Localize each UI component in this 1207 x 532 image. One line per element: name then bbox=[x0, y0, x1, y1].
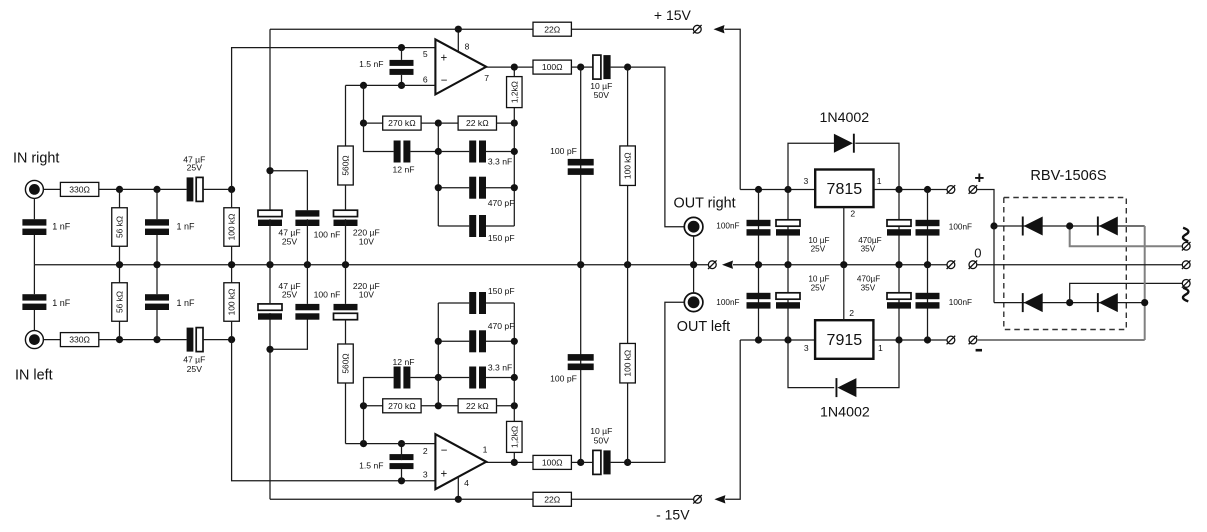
svg-text:25V: 25V bbox=[811, 283, 826, 292]
arrow 0V bbox=[722, 261, 733, 269]
resistor 100 ohm (bottom) bbox=[533, 455, 571, 469]
svg-text:100 kΩ: 100 kΩ bbox=[623, 152, 633, 179]
svg-text:150 pF: 150 pF bbox=[488, 233, 515, 243]
capacitor 1.5 nF (bottom) bbox=[390, 454, 414, 469]
wire -unreg rail right bbox=[874, 339, 947, 341]
svg-text:12 nF: 12 nF bbox=[393, 357, 415, 367]
wire R56k to 0V (bottom) bbox=[119, 265, 121, 283]
wire to 10uF (bottom) bbox=[581, 461, 593, 463]
svg-text:56 kΩ: 56 kΩ bbox=[115, 216, 125, 238]
svg-text:0: 0 bbox=[974, 246, 981, 261]
terminal AC2 bbox=[1182, 279, 1191, 288]
wire 1nF first to 0V (top) bbox=[33, 235, 35, 265]
wire -15V left vertical bbox=[269, 313, 271, 499]
junction feedback vertical top bbox=[360, 82, 367, 89]
op-amp U1b (bottom) bbox=[435, 434, 486, 489]
wire R330 to node (bottom) bbox=[99, 339, 120, 341]
svg-text:7815: 7815 bbox=[827, 181, 863, 198]
svg-text:5: 5 bbox=[423, 49, 428, 59]
wire 100k node down to op-amp pin3 bbox=[232, 340, 436, 481]
wire 7915 pin2 to 0V bbox=[843, 265, 845, 321]
wire feedback vertical bbox=[363, 85, 365, 123]
capacitor 150 pF (top) bbox=[469, 215, 486, 237]
svg-text:10V: 10V bbox=[359, 290, 375, 300]
diode D3 bridge top-left bbox=[1022, 217, 1043, 236]
svg-text:560Ω: 560Ω bbox=[341, 353, 351, 373]
wire OUT left jack to 0V bbox=[693, 265, 695, 293]
wire 10uF out col (PSU top) bbox=[787, 190, 789, 265]
resistor 100 kohm input (top) bbox=[224, 208, 240, 247]
capacitor 10uF 25V PSU out (top) bbox=[776, 220, 800, 236]
junction pin8 rail bbox=[455, 26, 462, 33]
capacitor 100nF PSU in (top) bbox=[916, 220, 940, 236]
wire feedback to 12nF jog bbox=[364, 123, 394, 151]
wire OUT right jack to 0V bbox=[693, 236, 695, 265]
resistor 100 kohm input (bottom) bbox=[224, 283, 240, 322]
svg-text:1 nF: 1 nF bbox=[52, 221, 71, 231]
wire 470uF col (PSU bottom) bbox=[898, 265, 900, 340]
wire row2 left seg (bottom) bbox=[438, 340, 469, 342]
capacitor 100 pF (top) bbox=[568, 159, 594, 175]
junction 0V line x=119.5 bbox=[116, 261, 123, 268]
svg-text:3: 3 bbox=[804, 343, 809, 353]
wire R22k to right node bbox=[497, 122, 515, 124]
capacitor 47 uF 25V coupling (bottom) bbox=[187, 328, 203, 352]
capacitor 12 nF (bottom) bbox=[394, 367, 411, 389]
svg-text:8: 8 bbox=[465, 41, 470, 51]
wire out to jack corner (bottom) bbox=[628, 302, 685, 462]
capacitor 1 nF (first, top) bbox=[22, 219, 46, 235]
RCA jack IN left bbox=[25, 331, 43, 349]
wire R330 to node bbox=[99, 188, 120, 190]
capacitor 150 pF (bottom) bbox=[469, 292, 486, 314]
terminal - unreg (amp side) bbox=[947, 336, 956, 345]
IC regulator 7815 U2 bbox=[815, 170, 873, 208]
junction right ladder at 22k row (top) bbox=[511, 120, 518, 127]
svg-text:1.5 nF: 1.5 nF bbox=[359, 59, 383, 69]
wire out to jack corner (top) bbox=[628, 67, 685, 227]
junction feedback row left (bottom) bbox=[360, 402, 367, 409]
wire -unreg rail bbox=[740, 339, 815, 341]
wire row2 right seg bbox=[486, 187, 514, 189]
bridge rectifier dashed outline bbox=[1004, 198, 1127, 330]
wire 100nF to 0V (rail top) bbox=[306, 219, 308, 265]
resistor 560 ohm (bottom) bbox=[338, 344, 354, 383]
wire pin4 to -15V rail bbox=[457, 477, 459, 499]
junction row1 right bbox=[511, 148, 518, 155]
capacitor 47 uF 25V rail (bottom) bbox=[258, 304, 282, 320]
resistor 100 ohm (top) bbox=[533, 60, 571, 74]
wire 100k column (bottom) bbox=[627, 383, 629, 462]
wire AC2 jog bbox=[1070, 283, 1182, 302]
svg-text:3: 3 bbox=[804, 176, 809, 186]
capacitor 220 uF 10V (top) bbox=[334, 210, 358, 226]
junction 1.5nF bottom (pin6 wire) bbox=[398, 82, 405, 89]
wire row3 right seg (bottom) bbox=[486, 302, 514, 304]
wire 7815 pin2 to 0V bbox=[843, 207, 845, 265]
svg-text:100 kΩ: 100 kΩ bbox=[227, 289, 237, 316]
svg-text:OUT right: OUT right bbox=[674, 195, 736, 211]
junction 100pF column (top out) bbox=[577, 64, 584, 71]
svg-text:1: 1 bbox=[877, 176, 882, 186]
wire 220u to 0V (bottom) bbox=[345, 265, 347, 304]
capacitor 3.3 nF (top) bbox=[469, 141, 486, 163]
capacitor 220 uF 10V (bottom) bbox=[334, 304, 358, 320]
junction +15V cap node bbox=[266, 167, 273, 174]
wire 1.5nF stub down (bottom) bbox=[401, 469, 403, 481]
junction 12nF/3.3nF row left bbox=[435, 148, 442, 155]
svg-text:560Ω: 560Ω bbox=[341, 155, 351, 175]
capacitor 1 nF (second, top) bbox=[145, 219, 169, 235]
wire bridge right vertical bbox=[1144, 226, 1146, 340]
capacitor 470uF 35V PSU (bottom) bbox=[887, 293, 911, 309]
junction 100k column (bottom out) bbox=[624, 459, 631, 466]
capacitor 100nF PSU in (bottom) bbox=[916, 293, 940, 309]
junction row2 right bbox=[511, 184, 518, 191]
wire 10uF to 100k node bbox=[611, 66, 628, 68]
svg-text:35V: 35V bbox=[861, 245, 876, 254]
wire 1.5nF stub up (bottom) bbox=[401, 444, 403, 461]
svg-text:25V: 25V bbox=[187, 162, 203, 172]
wire 100nF to 0V (rail bottom) bbox=[306, 265, 308, 304]
junction feedback row left bbox=[360, 120, 367, 127]
wire 1.5nF stub up bbox=[401, 48, 403, 60]
svg-text:IN right: IN right bbox=[13, 150, 59, 166]
svg-text:100nF: 100nF bbox=[716, 298, 739, 307]
svg-text:22Ω: 22Ω bbox=[544, 24, 561, 34]
junction row2 right (bottom) bbox=[511, 338, 518, 345]
junction 0V line x=307.4 bbox=[304, 261, 311, 268]
wire mid node to R22k (bottom) bbox=[438, 405, 458, 407]
wire row1 left seg bbox=[438, 151, 469, 153]
junction 1.5nF top (pin2 wire) bbox=[398, 440, 405, 447]
wire +15V feed from PSU bbox=[724, 29, 740, 189]
svg-text:10 µF: 10 µF bbox=[808, 236, 829, 245]
resistor 56 kohm (bottom) bbox=[112, 283, 128, 322]
svg-text:470µF: 470µF bbox=[858, 236, 881, 245]
wire jog to 100nF (top) bbox=[270, 171, 307, 211]
svg-text:56 kΩ: 56 kΩ bbox=[115, 291, 125, 313]
resistor 270 kohm (bottom) bbox=[383, 399, 421, 413]
wire row3 left seg bbox=[438, 225, 469, 227]
terminal +15V amp bbox=[693, 25, 702, 34]
diode D6 bridge bottom-right bbox=[1097, 293, 1118, 312]
junction 100k node (top) bbox=[228, 186, 235, 193]
svg-text:470 pF: 470 pF bbox=[488, 321, 515, 331]
wire 1nF to 0V (top) bbox=[156, 235, 158, 265]
wire bridge 0 line bbox=[977, 264, 1182, 266]
terminal AC0 bbox=[1182, 260, 1191, 269]
wire C47u to 100k node (top) bbox=[203, 188, 232, 190]
resistor 1.2 kohm (top) bbox=[507, 77, 523, 108]
wire 10uF to 100k node (bottom) bbox=[611, 461, 628, 463]
svg-text:25V: 25V bbox=[282, 290, 298, 300]
resistor 330 ohm (bottom) bbox=[60, 333, 98, 347]
svg-text:10V: 10V bbox=[359, 236, 375, 246]
svg-text:100Ω: 100Ω bbox=[542, 458, 563, 468]
wire node up to R56k (bottom) bbox=[119, 321, 121, 339]
wire jack to R 330 bbox=[43, 188, 61, 190]
junction pin4 rail bbox=[455, 496, 462, 503]
capacitor 100nF PSU out (bottom) bbox=[747, 293, 771, 309]
wire pin6 corner down to 560 bbox=[345, 85, 347, 146]
IC regulator 7915 U3 bbox=[815, 320, 873, 359]
svg-text:+: + bbox=[974, 168, 984, 187]
wire 100k out to 0V (top) bbox=[627, 186, 629, 265]
terminal 0V amp bbox=[708, 260, 717, 269]
wire R100 to 100pF node bbox=[572, 66, 581, 68]
capacitor 470uF 35V PSU (top) bbox=[887, 220, 911, 236]
svg-text:- 15V: - 15V bbox=[656, 507, 690, 523]
junction 100nF out column (PSU top) bbox=[755, 186, 762, 193]
svg-text:100 nF: 100 nF bbox=[314, 229, 341, 239]
wire AC1 jog bbox=[1070, 226, 1182, 246]
terminal AC1 bbox=[1182, 242, 1191, 251]
resistor 330 ohm (top) bbox=[60, 182, 98, 196]
RCA jack IN right bbox=[25, 180, 43, 198]
wire pin6 row bbox=[346, 84, 436, 86]
svg-text:1 nF: 1 nF bbox=[52, 298, 71, 308]
wire jack down to 1nF (top) bbox=[33, 198, 35, 219]
capacitor 10 uF 50V (bottom) bbox=[593, 450, 611, 474]
svg-text:1,2kΩ: 1,2kΩ bbox=[509, 426, 519, 448]
svg-text:1: 1 bbox=[878, 343, 883, 353]
arrow -15V bbox=[714, 495, 725, 503]
wire 1nF column to C47u (top) bbox=[157, 188, 187, 190]
resistor 22 kohm (top) bbox=[458, 116, 496, 130]
junction output/1.2k (bottom) bbox=[511, 459, 518, 466]
wire bridge + terminal to cathode column bbox=[977, 190, 994, 227]
svg-text:1,2kΩ: 1,2kΩ bbox=[509, 81, 519, 103]
svg-text:100nF: 100nF bbox=[949, 222, 972, 231]
svg-text:6: 6 bbox=[423, 75, 428, 85]
svg-text:RBV-1506S: RBV-1506S bbox=[1030, 168, 1107, 184]
svg-text:2: 2 bbox=[850, 208, 855, 218]
wire 12nF to mid vertical (bottom) bbox=[410, 377, 438, 379]
junction bridge - column bbox=[1141, 299, 1148, 306]
wire 47u to 0V (rail bottom) bbox=[269, 265, 271, 304]
junction 100pF column (bottom out) bbox=[577, 459, 584, 466]
resistor 22 ohm (bottom) bbox=[533, 492, 571, 506]
capacitor 10 uF 50V (top) bbox=[593, 55, 611, 79]
junction 0V line x=270.0 bbox=[266, 261, 273, 268]
wire -15V rail right bbox=[572, 498, 694, 500]
diode D5 bridge bottom-left bbox=[1022, 293, 1043, 312]
capacitor 47 uF 25V rail (top) bbox=[258, 210, 282, 226]
wire node to C1nF column (top) bbox=[120, 188, 158, 190]
junction bridge bottom middle bbox=[1066, 299, 1073, 306]
svg-text:+: + bbox=[441, 52, 448, 64]
junction 1.5nF top (pin5 wire) bbox=[398, 44, 405, 51]
svg-text:25V: 25V bbox=[282, 236, 298, 246]
wire 100k column (top) bbox=[627, 67, 629, 146]
wire +unreg rail bbox=[740, 189, 815, 191]
svg-text:100 nF: 100 nF bbox=[314, 290, 341, 300]
wire pin2 row bbox=[346, 443, 436, 445]
junction 100k column (top out) bbox=[624, 64, 631, 71]
svg-text:3: 3 bbox=[423, 470, 428, 480]
svg-text:50V: 50V bbox=[594, 90, 610, 100]
wire 0V center line (amp) bbox=[34, 264, 708, 266]
wire row2 right seg (bottom) bbox=[486, 340, 514, 342]
junction right ladder at 22k row (bottom) bbox=[511, 402, 518, 409]
wire 1nF first to 0V (bottom) bbox=[33, 265, 35, 295]
wire 560 to 220uF bbox=[345, 185, 347, 210]
svg-text:−: − bbox=[441, 445, 448, 457]
junction bridge top middle bbox=[1066, 222, 1073, 229]
diode D1 1N4002 top symbol bbox=[834, 134, 855, 153]
svg-text:1N4002: 1N4002 bbox=[820, 405, 870, 421]
wire op-amp out to R100 (bottom) bbox=[486, 461, 532, 463]
svg-text:470 pF: 470 pF bbox=[488, 198, 515, 208]
svg-text:100Ω: 100Ω bbox=[542, 62, 563, 72]
junction 1nF column (bottom) bbox=[153, 336, 160, 343]
svg-text:150 pF: 150 pF bbox=[488, 286, 515, 296]
junction 0V line x=627.6 bbox=[624, 261, 631, 268]
junction 470uF in column (PSU top) bbox=[895, 186, 902, 193]
junction 330/56k node (bottom) bbox=[116, 336, 123, 343]
wire fb node to R270k (bottom) bbox=[364, 405, 383, 407]
wire 1nF to 0V (bottom) bbox=[156, 265, 158, 295]
wire 100nF in col (PSU bottom) bbox=[927, 265, 929, 340]
wire 0V feed from PSU bbox=[733, 264, 947, 266]
wire 1nF stub top bbox=[156, 189, 158, 219]
resistor 22 ohm (top) bbox=[533, 22, 571, 36]
junction 1.5nF bottom cap (pin3 wire) bbox=[398, 477, 405, 484]
RCA jack OUT right bbox=[684, 217, 703, 236]
resistor 560 ohm (top) bbox=[338, 146, 354, 185]
label ~ (AC2) bbox=[1183, 288, 1188, 302]
wire 470uF col (PSU top) bbox=[898, 190, 900, 265]
junction row2 left bbox=[435, 184, 442, 191]
svg-text:7: 7 bbox=[484, 73, 489, 83]
svg-text:35V: 35V bbox=[861, 283, 876, 292]
junction mid ladder top bbox=[435, 120, 442, 127]
wire 12nF to mid vertical bbox=[410, 151, 438, 153]
resistor 100 kohm out (bottom) bbox=[620, 343, 636, 383]
label - (bridge) bbox=[976, 349, 982, 352]
wire 100nF out col (PSU top) bbox=[758, 190, 760, 265]
svg-text:100nF: 100nF bbox=[949, 298, 972, 307]
wire bridge top row bbox=[994, 225, 1145, 227]
wire +15V left vertical bbox=[269, 29, 271, 210]
svg-text:100nF: 100nF bbox=[716, 222, 739, 231]
wire to 10uF bbox=[581, 66, 593, 68]
junction row1 right (bottom) bbox=[511, 374, 518, 381]
wire bridge bottom row bbox=[994, 302, 1145, 304]
capacitor 12 nF (top) bbox=[394, 141, 411, 163]
svg-text:100 pF: 100 pF bbox=[550, 146, 577, 156]
svg-text:1 nF: 1 nF bbox=[177, 298, 196, 308]
svg-text:1: 1 bbox=[483, 445, 488, 455]
RCA jack OUT left bbox=[684, 293, 703, 312]
svg-text:100 pF: 100 pF bbox=[550, 374, 577, 384]
resistor 22 kohm (bottom) bbox=[458, 399, 496, 413]
svg-text:330Ω: 330Ω bbox=[69, 185, 90, 195]
svg-text:22Ω: 22Ω bbox=[544, 494, 561, 504]
diode D4 bridge top-right bbox=[1097, 217, 1118, 236]
wire 560 to 220uF (bottom) bbox=[345, 320, 347, 345]
wire R270k to mid node (bottom) bbox=[421, 405, 438, 407]
wire 100nF in col (PSU top) bbox=[927, 190, 929, 265]
svg-text:100 kΩ: 100 kΩ bbox=[227, 214, 237, 241]
junction 100nF in column (PSU bottom) bbox=[924, 336, 931, 343]
svg-text:2: 2 bbox=[849, 308, 854, 318]
capacitor 470 pF (top) bbox=[469, 177, 486, 199]
terminal + unreg (amp side) bbox=[947, 185, 956, 194]
wire row1 right seg bbox=[486, 151, 514, 153]
wire row1 left seg (bottom) bbox=[438, 377, 469, 379]
svg-text:270 kΩ: 270 kΩ bbox=[388, 118, 416, 128]
junction 0V line x=345.5 bbox=[342, 261, 349, 268]
svg-text:+: + bbox=[441, 468, 448, 480]
junction 10uF out column (PSU bottom) bbox=[784, 336, 791, 343]
junction mid ladder bottom bbox=[435, 402, 442, 409]
junction row2 left (bottom) bbox=[435, 338, 442, 345]
svg-text:OUT left: OUT left bbox=[677, 319, 730, 335]
wire node down to R56k bbox=[119, 189, 121, 207]
resistor 1.2 kohm (bottom) bbox=[507, 421, 523, 452]
svg-text:12 nF: 12 nF bbox=[393, 164, 415, 174]
svg-text:22 kΩ: 22 kΩ bbox=[466, 118, 489, 128]
capacitor 100 nF rail (top) bbox=[295, 210, 319, 226]
svg-text:50V: 50V bbox=[594, 435, 610, 445]
svg-text:10 µF: 10 µF bbox=[808, 274, 829, 283]
wire diode bottom right vert bbox=[856, 340, 899, 388]
junction 0V line x=580.7 bbox=[577, 261, 584, 268]
svg-text:−: − bbox=[441, 75, 448, 87]
wire C47u to 100k node (bottom) bbox=[203, 339, 232, 341]
capacitor 10uF 25V PSU out (bottom) bbox=[776, 293, 800, 309]
wire bridge - wire bbox=[977, 339, 1145, 341]
svg-text:100 kΩ: 100 kΩ bbox=[623, 350, 633, 377]
svg-text:IN left: IN left bbox=[15, 368, 53, 384]
svg-text:25V: 25V bbox=[187, 364, 203, 374]
wire -15V rail bbox=[270, 498, 533, 500]
wire feedback vertical (bottom) bbox=[363, 406, 365, 444]
terminal + bridge side bbox=[969, 185, 978, 194]
junction 10uF out column (PSU top) bbox=[784, 186, 791, 193]
wire row3 right seg bbox=[486, 225, 514, 227]
junction 330/56k node (top) bbox=[116, 186, 123, 193]
junction 12nF/3.3nF row left (bottom) bbox=[435, 374, 442, 381]
junction 1nF column (top) bbox=[153, 186, 160, 193]
wire mid node to R22k bbox=[438, 122, 458, 124]
terminal 0V (amp side) bbox=[947, 260, 956, 269]
svg-text:3.3 nF: 3.3 nF bbox=[488, 156, 512, 166]
svg-text:4: 4 bbox=[464, 478, 469, 488]
wire pin2 corner up to 560 bbox=[345, 383, 347, 444]
wire jog to 100nF (bottom) bbox=[270, 320, 307, 350]
junction 100nF out column (PSU bottom) bbox=[755, 336, 762, 343]
wire 100pF column (bottom) bbox=[580, 265, 582, 463]
wire row3 left seg (bottom) bbox=[438, 302, 469, 304]
wire pin8 to +15V rail bbox=[457, 29, 459, 52]
wire 1nF column to C47u (bottom) bbox=[157, 339, 187, 341]
svg-text:1 nF: 1 nF bbox=[177, 221, 196, 231]
junction output/1.2k (top) bbox=[511, 64, 518, 71]
capacitor 100nF PSU out (top) bbox=[747, 220, 771, 236]
op-amp U1a (top) bbox=[435, 39, 486, 94]
wire -15V feed from PSU bbox=[725, 340, 740, 499]
capacitor 1.5 nF (top) bbox=[390, 60, 414, 75]
wire 100k out to 0V (bottom) bbox=[627, 265, 629, 344]
junction feedback vertical bottom bbox=[360, 440, 367, 447]
wire 1nF stub (bottom) bbox=[156, 310, 158, 340]
wire +15V rail bbox=[270, 28, 533, 30]
svg-text:470µF: 470µF bbox=[857, 274, 880, 283]
capacitor 3.3 nF (bottom) bbox=[469, 367, 486, 389]
